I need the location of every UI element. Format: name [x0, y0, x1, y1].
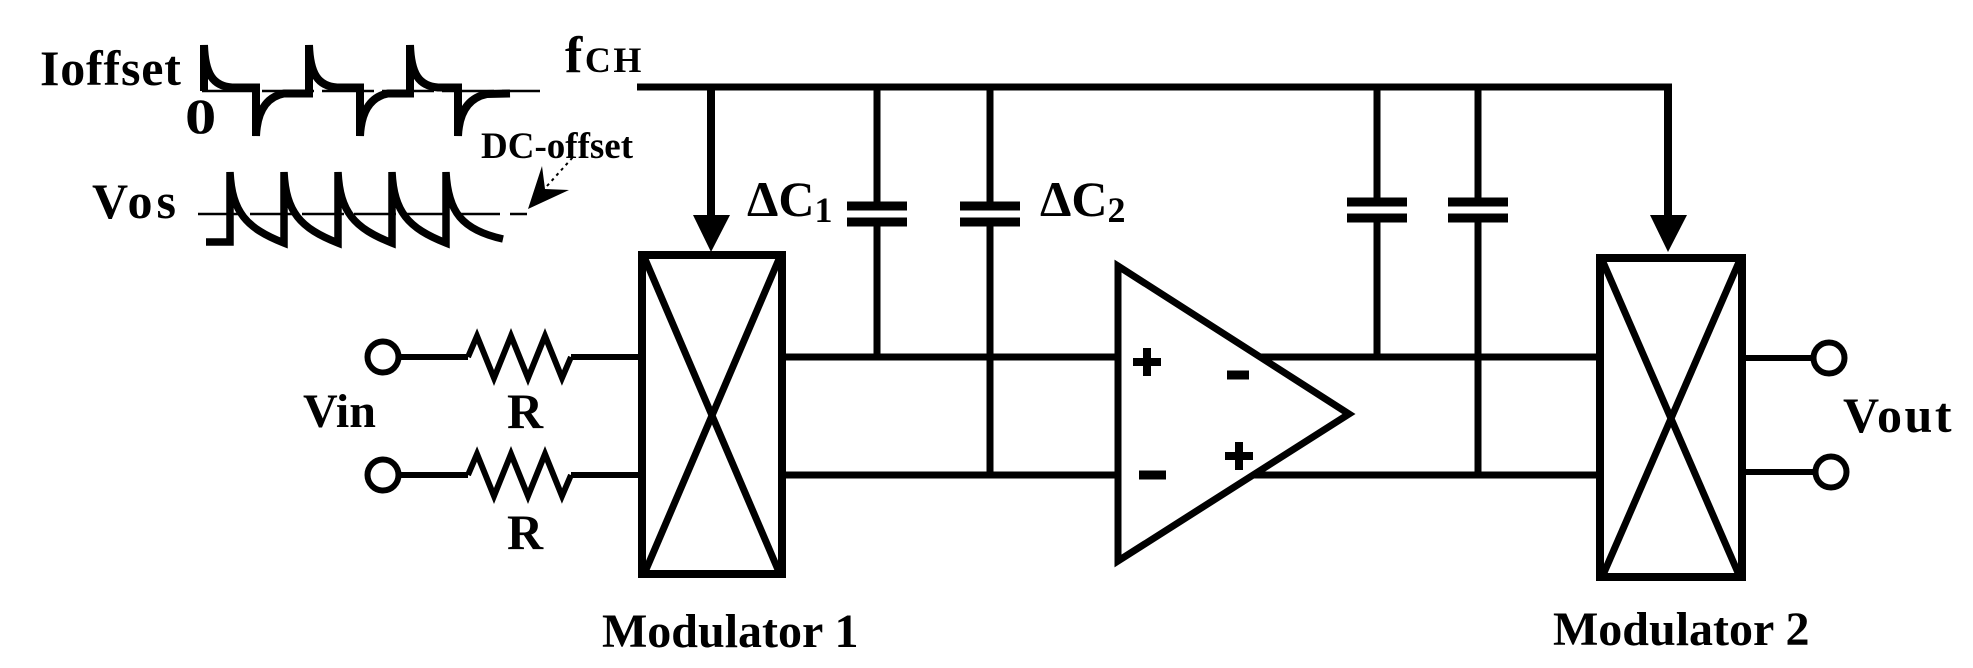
svg-text:Vos: Vos — [92, 173, 180, 229]
svg-text:0: 0 — [185, 90, 216, 145]
svg-text:Modulator 2: Modulator 2 — [1553, 603, 1809, 656]
svg-text:Modulator 1: Modulator 1 — [602, 605, 858, 658]
svg-text:R: R — [507, 383, 544, 439]
svg-text:Vin: Vin — [303, 385, 376, 438]
svg-text:Vout: Vout — [1843, 387, 1954, 443]
svg-text:R: R — [507, 504, 544, 560]
svg-text:Ioffset: Ioffset — [40, 40, 182, 96]
svg-text:DC-offset: DC-offset — [481, 126, 634, 167]
